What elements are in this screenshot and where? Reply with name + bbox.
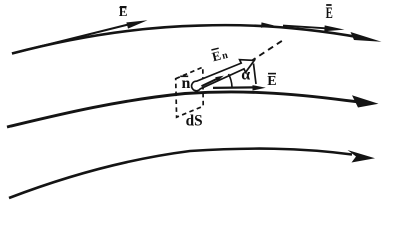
field line 1 (top curve)	[12, 25, 362, 53]
svg-text:α: α	[241, 67, 250, 84]
tangent vector arrow E (top left)	[12, 24, 131, 54]
vector E_n (hollow arrow)	[192, 60, 255, 91]
vector E (horizontal arrow)	[213, 86, 254, 89]
field line 1 end arrowhead	[351, 32, 382, 42]
field line 1 mid arrowhead	[261, 22, 274, 27]
field line 3 end arrowhead	[348, 150, 376, 163]
area element dS (dashed parallelogram)	[176, 67, 204, 117]
label E_n	[210, 46, 229, 64]
normal dashed line	[251, 41, 283, 62]
svg-text:E: E	[267, 74, 276, 89]
svg-text:E: E	[326, 5, 333, 22]
normal unit vector n (filled arrow)	[202, 79, 218, 86]
svg-text:dS: dS	[186, 113, 203, 130]
field line 2 (middle curve)	[7, 92, 368, 127]
angle alpha arc	[229, 74, 233, 87]
perpendicular from E tip to normal	[254, 64, 257, 85]
svg-text:n: n	[182, 75, 191, 92]
field line 3 (bottom curve)	[9, 149, 352, 198]
field line 2 end arrowhead	[352, 95, 379, 107]
tangent vector arrow E (top right)	[283, 26, 328, 29]
